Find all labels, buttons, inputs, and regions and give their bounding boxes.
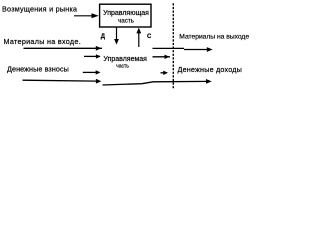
wire: long money-in arrow below label xyxy=(23,79,97,82)
wire: output line outer segment with arrowhead xyxy=(184,49,210,51)
svg-text:Денежные взносы: Денежные взносы xyxy=(7,65,69,74)
block: Управляющая часть xyxy=(100,4,151,27)
wire: short output arrow from processing part xyxy=(153,56,171,58)
svg-text:Материалы на входе.: Материалы на входе. xyxy=(4,37,82,46)
wire: output line inner segment (materials out) xyxy=(153,47,185,49)
wire: down arrow from control box (directives) xyxy=(116,28,118,40)
wire: tiny money arrow at boundary xyxy=(161,72,165,74)
svg-text:Материалы на выходе: Материалы на выходе xyxy=(179,34,249,41)
svg-text:часть: часть xyxy=(118,17,134,24)
svg-text:Управляемая: Управляемая xyxy=(103,56,147,63)
wire: short input arrow to processing part xyxy=(84,55,100,57)
wire: long money-out arrow xyxy=(103,81,210,85)
wire: up arrow to control box (reports) xyxy=(138,33,140,47)
boundary: dashed separator between enterprise and market xyxy=(172,3,174,89)
svg-text:Д: Д xyxy=(101,34,106,40)
svg-text:С: С xyxy=(147,34,152,40)
wire: short money-in arrow after label xyxy=(83,71,97,73)
svg-text:Возмущения и рынка: Возмущения и рынка xyxy=(2,5,77,14)
wire: long input arrow (materials in) xyxy=(24,47,103,49)
wire: arrow from disturbances label into control box xyxy=(74,15,92,17)
svg-text:Управляющая: Управляющая xyxy=(103,10,149,17)
svg-text:Денежные доходы: Денежные доходы xyxy=(178,65,243,74)
svg-text:часть: часть xyxy=(116,63,129,69)
